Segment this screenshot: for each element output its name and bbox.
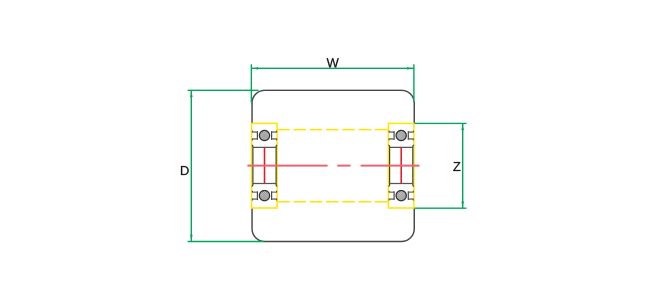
bottom ball — [394, 179, 409, 211]
dimension Z arrow bottom — [461, 201, 464, 207]
label W — [327, 58, 339, 67]
dimension W arrow left — [252, 67, 258, 70]
top ball — [394, 119, 409, 151]
dimension Z arrow top — [461, 124, 464, 130]
bottom ball races — [389, 191, 413, 201]
inner ring bore verticals with end flares — [390, 146, 413, 186]
top ball — [257, 119, 272, 151]
yellow hub bore hidden lines (dashed) — [277, 130, 388, 202]
dimension D arrow bottom — [190, 235, 193, 241]
dimension W arrow right — [407, 67, 413, 70]
top ball races — [389, 131, 413, 141]
dimension Z extension lines — [415, 123, 467, 208]
dimension D line — [190, 90, 192, 241]
dimension D arrow top — [190, 91, 193, 97]
red bearing axis vertical line — [400, 147, 402, 184]
inner ring bore horizontals — [389, 147, 413, 183]
label D — [181, 166, 189, 175]
inner ring bore verticals with end flares — [253, 146, 276, 186]
bottom ball races — [252, 191, 276, 201]
Rb bearing — [389, 119, 414, 211]
dimension W extension lines — [251, 64, 414, 102]
dimension Z line — [462, 123, 464, 208]
label Z — [453, 162, 460, 171]
red bearing axis vertical line — [264, 147, 266, 184]
inner ring bore horizontals — [252, 147, 276, 183]
red horizontal centerline (axis of wheel) — [247, 165, 419, 167]
Lb bearing — [252, 119, 277, 211]
bottom ball — [257, 179, 272, 211]
left bearing seat (yellow box) — [252, 123, 278, 208]
right bearing seat (yellow box) — [388, 123, 414, 208]
top ball races — [252, 131, 276, 141]
dimension D extension lines — [188, 90, 264, 241]
wheel body outline (rounded rectangle, gaps at bearing seats) — [252, 90, 414, 241]
dimension W line — [251, 67, 414, 69]
